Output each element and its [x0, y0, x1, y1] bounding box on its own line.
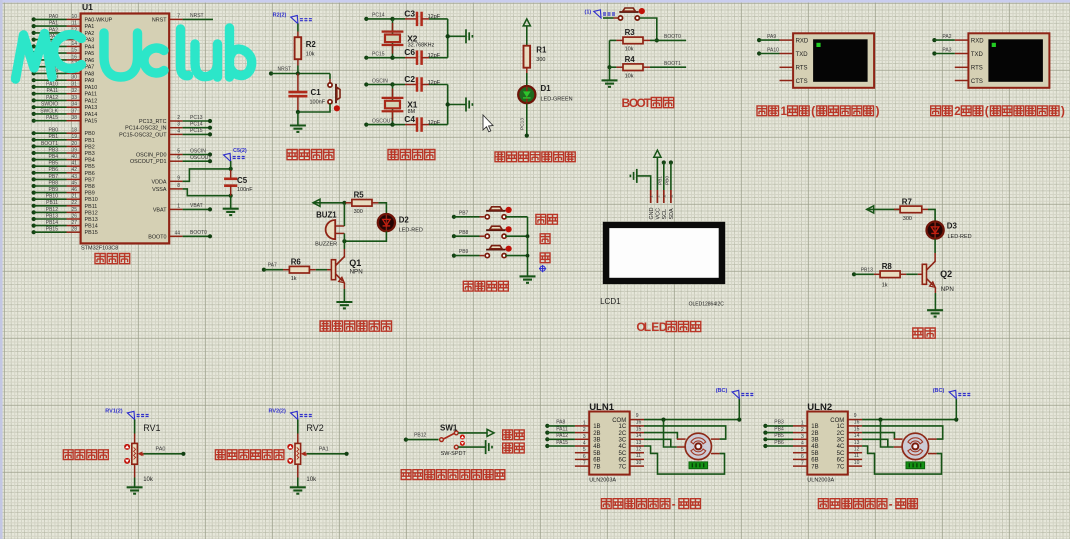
svg-text:ULN2: ULN2 — [807, 402, 832, 413]
ULN1 left pin 6 6B — [575, 454, 601, 464]
wire wiper to net PA1 — [307, 446, 349, 456]
svg-text:R2: R2 — [306, 40, 317, 49]
svg-text:1: 1 — [177, 203, 180, 209]
ULN2 right pin 9 COM — [830, 413, 862, 424]
svg-text:14: 14 — [71, 41, 77, 47]
ULN1 left pin 5 5B — [575, 447, 601, 457]
U1 left pin 31 PA10 / wire net PA10 — [32, 81, 98, 91]
LCD1 OLED pins GND VCC SCL SDA — [649, 190, 675, 220]
svg-text:PA4: PA4 — [85, 44, 95, 50]
svg-text:PB9: PB9 — [85, 191, 95, 197]
U1 left pin 38 PA15 / wire net PA15 — [32, 115, 98, 125]
terminal pin RXD — [780, 38, 809, 44]
svg-text:PB8: PB8 — [459, 230, 469, 236]
svg-text:PB0: PB0 — [665, 176, 671, 185]
wire power to R5 with junction — [313, 201, 347, 205]
svg-text:RXD: RXD — [796, 38, 809, 44]
push button BOOT — [618, 8, 645, 20]
push button PB9 — [485, 246, 512, 258]
svg-text:13: 13 — [854, 440, 860, 446]
wire power to R7 — [867, 208, 900, 210]
wire 4C to motor right-bottom — [644, 446, 725, 474]
wire terminal to RV2 — [297, 420, 299, 444]
terminal pin RXD — [955, 38, 984, 44]
svg-text:OSCIN: OSCIN — [190, 148, 206, 154]
svg-text:1B: 1B — [593, 424, 600, 430]
svg-text:32: 32 — [71, 88, 77, 94]
resistor R7 300 — [894, 197, 928, 222]
ULN2 left pin 7 7B — [793, 461, 819, 471]
svg-text:9: 9 — [177, 175, 180, 181]
ULN1 left pin 4 4B / wire net PA15 — [545, 440, 600, 450]
capacitor C5 100nF — [224, 148, 254, 196]
svg-text:PA15: PA15 — [46, 115, 58, 121]
terminal pin TXD — [955, 52, 984, 58]
svg-text:PB11: PB11 — [46, 200, 58, 206]
capacitor C6 12pF — [404, 47, 447, 65]
U1 left pin 16 PA6 / wire net PA6 — [32, 54, 95, 64]
crystal X1 8M — [382, 85, 418, 125]
wire pot bottom to ground — [297, 464, 299, 487]
ground keys — [520, 276, 536, 282]
svg-text:7B: 7B — [593, 464, 600, 470]
svg-text:4C: 4C — [837, 444, 845, 450]
svg-text:PA9: PA9 — [85, 78, 95, 84]
wire net PB1 to SCL — [658, 160, 666, 190]
svg-text:20: 20 — [71, 141, 77, 147]
svg-text:5B: 5B — [811, 451, 818, 457]
diode D3 LED-RED — [927, 222, 972, 240]
motor stepper ULN1 — [677, 433, 720, 459]
svg-text:LCD1: LCD1 — [600, 297, 621, 306]
node NRST wire — [269, 66, 330, 76]
U1 left pin 42 PB6 / wire net PB6 — [32, 167, 95, 177]
MCUclub logo cyan — [16, 28, 252, 79]
terminal pin CTS — [955, 79, 983, 85]
push button PB8 — [485, 226, 512, 238]
wire caps to side ground — [446, 19, 467, 58]
wire 4C to motor right-bottom — [862, 446, 941, 474]
svg-text:5: 5 — [801, 447, 804, 453]
svg-text:PB9: PB9 — [49, 187, 59, 193]
ULN2 left pin 3 3B / wire net PB5 — [763, 433, 818, 443]
svg-text:28: 28 — [71, 227, 77, 233]
label 晶振电路 (crystal circuit) — [388, 150, 398, 160]
svg-text:3: 3 — [177, 122, 180, 128]
svg-text:BOOT1: BOOT1 — [41, 141, 58, 147]
U1 left pin 13 PA3 / wire net PA3 — [32, 34, 95, 44]
ULN2 left pin 1 1B / wire net PB3 — [763, 420, 818, 430]
svg-text:PB4: PB4 — [49, 154, 59, 160]
svg-text:4: 4 — [177, 128, 180, 134]
svg-text:100nF: 100nF — [237, 187, 253, 193]
svg-text:11: 11 — [636, 453, 641, 459]
svg-text:RTS: RTS — [796, 66, 808, 72]
svg-text:PA13: PA13 — [85, 105, 98, 111]
svg-text:5B: 5B — [593, 451, 600, 457]
svg-text:PA1: PA1 — [85, 24, 95, 30]
label 无人 (nobody) — [503, 430, 513, 440]
svg-text:4: 4 — [801, 441, 804, 447]
svg-text:CTS: CTS — [971, 79, 983, 85]
svg-text:100nF: 100nF — [310, 100, 326, 106]
svg-text:PB12: PB12 — [414, 433, 426, 439]
svg-text:SW-SPDT: SW-SPDT — [441, 451, 467, 457]
svg-text:PC15: PC15 — [372, 52, 385, 58]
svg-text:PA15: PA15 — [556, 440, 568, 446]
svg-text:PB4: PB4 — [774, 426, 784, 432]
wire button to bus — [505, 216, 527, 218]
wire 3C to motor left-bottom node — [644, 439, 671, 447]
resistor R8 1k — [852, 262, 922, 289]
svg-text:RV1: RV1 — [143, 423, 160, 433]
U1 right pin 9 VDDA wire to C5 node — [152, 167, 233, 186]
U1 left pin 12 PA2 / wire net PA2 — [32, 27, 95, 37]
U1 left pin 14 PA4 / wire net PA4 — [32, 41, 95, 51]
mouse cursor — [483, 115, 493, 132]
svg-text:PA0: PA0 — [49, 14, 58, 20]
svg-text:R1: R1 — [536, 46, 547, 55]
svg-text:OLED12864I2C: OLED12864I2C — [689, 302, 725, 308]
svg-text:PB10: PB10 — [85, 197, 98, 203]
wire net PA2 — [932, 34, 954, 42]
svg-text:PA12: PA12 — [46, 95, 58, 101]
svg-text:-: - — [672, 499, 676, 511]
ULN1 right pin 12 5C — [619, 447, 644, 457]
svg-text:PB13: PB13 — [46, 213, 58, 219]
svg-text:2B: 2B — [811, 431, 818, 437]
svg-text:PB10: PB10 — [46, 194, 58, 200]
U1 left pin 26 PB13 / wire net PB13 — [32, 213, 98, 223]
node PC15 wire — [364, 52, 417, 60]
svg-text:21: 21 — [71, 194, 77, 200]
label 烟雾调节 — [63, 450, 73, 460]
diode D1 LED-GREEN — [518, 84, 572, 103]
svg-text:GND: GND — [649, 207, 655, 219]
label 设置 (set) — [536, 214, 546, 224]
label 独立按键 (independent keys) — [463, 281, 473, 291]
wire net PB8 — [452, 230, 485, 238]
svg-text:R4: R4 — [625, 55, 636, 64]
svg-text:3B: 3B — [811, 438, 818, 444]
svg-text:VCC: VCC — [656, 208, 662, 219]
label 程序运行指示灯 (program running indicator) — [495, 152, 505, 162]
svg-text:R2(2): R2(2) — [273, 13, 287, 19]
wire 1C to motor right-top — [644, 426, 726, 439]
terminal pin RTS — [955, 66, 983, 72]
svg-text:43: 43 — [71, 174, 77, 180]
svg-text:BOOT1: BOOT1 — [664, 61, 681, 67]
svg-text:LED-GREEN: LED-GREEN — [541, 97, 573, 103]
svg-text:SW1: SW1 — [440, 423, 458, 432]
svg-text:2C: 2C — [837, 431, 845, 437]
svg-text:12pF: 12pF — [428, 14, 441, 20]
U1 left pin 25 PB12 / wire net PB12 — [32, 207, 98, 217]
wire ground to GND pin — [637, 176, 651, 190]
svg-text:R8: R8 — [882, 262, 893, 271]
svg-text:3: 3 — [801, 434, 804, 440]
svg-text:12pF: 12pF — [428, 53, 441, 59]
ULN2 left pin 6 6B — [793, 454, 819, 464]
svg-text:U1: U1 — [82, 2, 93, 12]
wire D2 to collector node — [342, 231, 386, 243]
label 串口2窗口（模拟语音控制） — [931, 106, 941, 116]
transistor Q2 NPN — [922, 261, 954, 293]
resistor R5 300 — [346, 190, 379, 215]
svg-text:12: 12 — [854, 447, 860, 453]
wire net PA9 — [757, 34, 780, 42]
svg-text:33: 33 — [71, 95, 77, 101]
svg-text:PB6: PB6 — [774, 440, 784, 446]
svg-text:PB2: PB2 — [85, 144, 95, 150]
wire R7 to D3 — [928, 209, 935, 221]
svg-text:RTS: RTS — [971, 66, 983, 72]
svg-text:44: 44 — [174, 230, 180, 236]
svg-text:18: 18 — [71, 128, 77, 134]
wire R3 to BOOT0 net — [657, 34, 686, 40]
svg-text:ULN1: ULN1 — [589, 402, 615, 413]
power arrow right (nobody) — [487, 429, 494, 436]
ULN2 right pin 12 5C — [837, 447, 862, 457]
svg-text:PA11: PA11 — [556, 426, 568, 432]
svg-text:7C: 7C — [619, 464, 627, 470]
svg-text:RV2: RV2 — [306, 423, 323, 433]
node PC14 wire — [364, 13, 417, 21]
svg-text:3C: 3C — [619, 438, 627, 444]
svg-text:C2: C2 — [404, 74, 415, 84]
svg-text:13: 13 — [636, 440, 642, 446]
wire 2C to motor left-top — [862, 433, 894, 440]
U1 left pin 19 PB1 / wire net PB1 — [32, 134, 95, 144]
svg-text:300: 300 — [536, 57, 545, 63]
U1 right pin 4 PC15-OSC32_OUT / wire net PC15 — [119, 128, 212, 138]
blue origin marker — [539, 265, 546, 272]
svg-text:31: 31 — [71, 81, 77, 87]
wire net PB9 — [452, 249, 485, 258]
U1 left pin 46 PB9 / wire net PB9 — [32, 187, 95, 197]
svg-text:PA10: PA10 — [46, 81, 58, 87]
diode D2 LED-RED — [378, 214, 423, 234]
label 有人 (somebody) — [503, 443, 513, 453]
svg-text:10k: 10k — [625, 47, 634, 53]
wire power to VCC pin — [656, 157, 658, 190]
svg-text:PB1: PB1 — [658, 176, 664, 185]
svg-text:3C: 3C — [837, 438, 845, 444]
terminal RV1(2) probe label — [105, 409, 150, 420]
svg-text:SCL: SCL — [662, 209, 668, 220]
U1 left pin 18 PB0 / wire net PB0 — [32, 128, 95, 138]
svg-text:C6: C6 — [404, 47, 415, 57]
ULN2 right pin 13 4C — [837, 440, 862, 450]
svg-text:(BC): (BC) — [716, 388, 728, 394]
U1 left pin 15 PA5 / wire net PA5 — [32, 48, 95, 58]
svg-text:19: 19 — [71, 134, 77, 140]
wire Q2 emitter to ground — [934, 287, 936, 293]
label 串口1窗口（模拟手机端） — [757, 106, 767, 116]
svg-text:PA10: PA10 — [767, 47, 779, 53]
svg-text:26: 26 — [71, 213, 77, 219]
ground lighting — [927, 310, 943, 316]
wire 1C to motor right-top — [862, 426, 943, 439]
svg-text:PB6: PB6 — [85, 171, 95, 177]
svg-text:PC15: PC15 — [190, 128, 203, 134]
label 加 (plus) — [540, 234, 550, 244]
U1 left pin 22 PB11 / wire net PB11 — [32, 200, 98, 210]
svg-text:39: 39 — [71, 147, 77, 153]
svg-text:C5(2): C5(2) — [233, 148, 247, 154]
wire R1 to D1 — [526, 68, 528, 86]
U1 right pin 5 OSCIN_PD0 / wire net OSCIN — [136, 148, 212, 158]
svg-text:SWCLK: SWCLK — [40, 108, 58, 114]
wire terminal to boot button — [603, 17, 614, 19]
svg-text:PB8: PB8 — [49, 180, 59, 186]
svg-text:Q2: Q2 — [940, 269, 952, 279]
svg-text:PB7: PB7 — [49, 174, 59, 180]
U1 left pin 41 PB5 / wire net PB5 — [32, 161, 95, 171]
svg-text:PA2: PA2 — [942, 34, 951, 40]
terminal (BC) probe label — [933, 388, 972, 398]
svg-text:BOOT0: BOOT0 — [190, 230, 207, 236]
side ground SW1 — [486, 440, 492, 454]
U1 left pin 17 PA7 / wire net PA7 — [32, 61, 95, 71]
svg-text:12pF: 12pF — [428, 80, 441, 86]
svg-text:27: 27 — [71, 220, 77, 226]
svg-text:PB11: PB11 — [85, 204, 98, 210]
svg-text:PA6: PA6 — [85, 58, 95, 64]
motor angle display — [689, 462, 708, 469]
svg-text:7B: 7B — [811, 464, 818, 470]
svg-text:16: 16 — [71, 54, 77, 60]
wire D3 to Q2 collector — [934, 239, 936, 253]
svg-text:C4: C4 — [404, 114, 415, 124]
svg-text:PC14: PC14 — [190, 122, 203, 128]
svg-text:BUZ1: BUZ1 — [316, 210, 337, 219]
capacitor C4 12pF — [404, 114, 447, 132]
svg-text:PB15: PB15 — [85, 230, 98, 236]
svg-text:22: 22 — [71, 200, 77, 206]
svg-text:PA12: PA12 — [85, 98, 98, 104]
svg-text:-: - — [889, 499, 893, 511]
svg-text:COM: COM — [830, 418, 844, 424]
wire 2C to motor left-top — [644, 433, 677, 440]
resistor R4 10k — [607, 40, 650, 79]
svg-text:PA11: PA11 — [47, 88, 59, 94]
svg-text:PA5: PA5 — [85, 51, 95, 57]
U1 left pin 34 PA13 / wire net SWDIO — [32, 102, 98, 112]
wire buzzer to nodes — [343, 203, 345, 226]
svg-text:1: 1 — [583, 420, 586, 426]
svg-text:7: 7 — [583, 461, 586, 467]
svg-text:LED-RED: LED-RED — [948, 234, 972, 240]
ULN1 left pin 7 7B — [575, 461, 601, 471]
svg-text:VSSA: VSSA — [152, 187, 167, 193]
svg-text:6: 6 — [177, 155, 180, 161]
wire net PA10 — [757, 47, 780, 55]
ULN1 right pin 10 7C — [619, 460, 644, 470]
U1 right pin 44 BOOT0 / wire net BOOT0 — [148, 230, 212, 240]
U1 left pin 20 PB2 / wire net BOOT1 — [32, 141, 95, 151]
ULN2 right pin 10 7C — [837, 460, 862, 470]
svg-text:PB5: PB5 — [774, 433, 784, 439]
resistor R1 300 — [524, 46, 547, 68]
svg-text:PB4: PB4 — [85, 158, 95, 164]
wire net PA3 — [932, 47, 954, 55]
svg-text:15: 15 — [636, 426, 642, 432]
ULN1 left pin 1 1B / wire net PA8 — [545, 420, 600, 430]
svg-text:10k: 10k — [625, 73, 634, 79]
ULN1 right pin 15 2C — [619, 426, 644, 436]
capacitor C1 100nF — [288, 74, 325, 113]
svg-text:46: 46 — [71, 187, 77, 193]
svg-text:6B: 6B — [811, 458, 818, 464]
wire button to bus — [505, 235, 527, 237]
svg-text:1: 1 — [781, 106, 788, 118]
display LCD1 OLED12864I2C body — [603, 222, 725, 284]
U1 right pin 3 PC14-OSC32_IN / wire net PC14 — [125, 122, 212, 132]
wire emitter to ground — [343, 283, 345, 303]
IC U1 STM32F103C8 main MCU body — [81, 14, 170, 244]
svg-text:PA0-WKUP: PA0-WKUP — [85, 17, 113, 23]
svg-text:PB0: PB0 — [85, 131, 95, 137]
svg-text:RV1(2): RV1(2) — [105, 409, 122, 415]
wire key bus vertical — [526, 217, 530, 277]
wire COM branch to motor left-bottom — [664, 420, 677, 447]
label 复位电路 (reset circuit) — [287, 150, 297, 160]
svg-text:PC13_RTC: PC13_RTC — [139, 119, 167, 125]
svg-text:6C: 6C — [837, 458, 845, 464]
U1 left pin 27 PB14 / wire net PB14 — [32, 220, 98, 230]
resistor R3 10k — [610, 28, 657, 53]
node OSCOUT wire — [364, 118, 417, 126]
svg-text:5C: 5C — [837, 451, 845, 457]
svg-text:7C: 7C — [837, 464, 845, 470]
ground RV2 — [290, 487, 306, 493]
U1 left pin 10 PA0-WKUP / wire net PA0 — [32, 14, 113, 24]
svg-text:R3: R3 — [625, 28, 636, 37]
svg-text:8: 8 — [177, 183, 180, 189]
svg-text:1C: 1C — [837, 424, 845, 430]
svg-text:5: 5 — [583, 447, 586, 453]
wire net PB0 to SDA — [665, 160, 673, 190]
resistor R2 10k — [295, 32, 317, 66]
power terminal left arrow lighting — [867, 206, 874, 213]
svg-text:1k: 1k — [291, 276, 297, 282]
side ground OLED — [630, 169, 636, 183]
U1 left pin 28 PB15 / wire net PB15 — [32, 227, 98, 237]
wire SW1 top to nobody arrow — [458, 432, 487, 434]
svg-text:14: 14 — [854, 433, 860, 439]
svg-text:C3: C3 — [404, 8, 415, 18]
svg-text:OSCOUT: OSCOUT — [190, 155, 211, 161]
svg-text:BUZZER: BUZZER — [315, 241, 337, 247]
svg-text:15: 15 — [854, 426, 860, 432]
svg-text:PB9: PB9 — [459, 249, 469, 255]
ULN2 right pin 15 2C — [837, 426, 862, 436]
terminal pin CTS — [780, 79, 808, 85]
svg-text:VBAT: VBAT — [153, 207, 167, 213]
svg-text:PB12: PB12 — [46, 207, 58, 213]
svg-text:40: 40 — [71, 154, 77, 160]
ground reset circuit — [290, 112, 306, 132]
power terminal left arrow — [313, 199, 320, 206]
svg-text:PA2: PA2 — [85, 31, 95, 37]
push button reset — [296, 74, 340, 115]
svg-text:OSCOUT_PD1: OSCOUT_PD1 — [130, 159, 167, 165]
wire button to bus — [505, 255, 527, 257]
svg-text:PB1: PB1 — [49, 134, 59, 140]
crystal X2 32.768KHz — [382, 19, 435, 58]
wire COM to BC terminal — [644, 399, 741, 422]
